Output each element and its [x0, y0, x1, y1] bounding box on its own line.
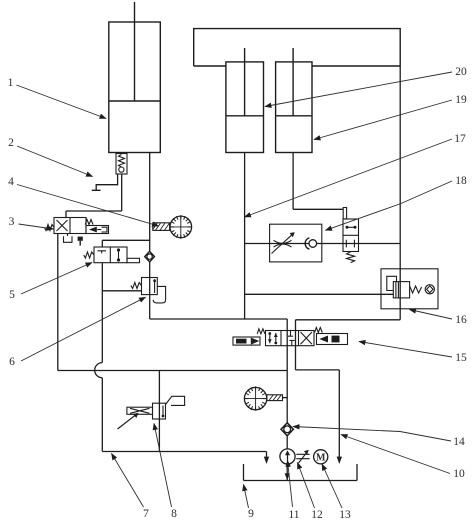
wire valve15 T-port drop to tank [296, 320, 340, 457]
leader line to relief valve 16 [410, 310, 453, 320]
svg-text:2: 2 [8, 137, 14, 149]
cylinder 20 [226, 48, 264, 153]
leader line to drain 2 [17, 146, 93, 177]
svg-text:15: 15 [455, 352, 467, 364]
wire bottom return line C [102, 452, 266, 458]
leader line to pump 11 [288, 461, 293, 508]
cylinder 1 [109, 2, 161, 153]
svg-text:8: 8 [171, 508, 177, 520]
svg-text:6: 6 [9, 356, 15, 368]
leader line to cylinder 20 [265, 72, 452, 107]
svg-text:18: 18 [455, 175, 467, 187]
electric motor 13 [314, 450, 328, 464]
valve 3 [44, 218, 108, 243]
flow control valve 17 [270, 224, 322, 262]
wire valve5 pilot line [102, 240, 149, 247]
motor 4 [153, 215, 192, 239]
leader line to motor 13 [322, 464, 342, 508]
svg-text:19: 19 [455, 94, 467, 106]
svg-text:16: 16 [455, 314, 467, 326]
leader line to valve 3 [19, 224, 54, 229]
leader line to throttle 12 [298, 463, 315, 509]
svg-text:17: 17 [454, 133, 466, 145]
leader line to motor 4 [17, 185, 159, 227]
svg-text:20: 20 [455, 66, 467, 78]
leader line to valve 5 [21, 263, 92, 295]
filter unit 8 [118, 396, 185, 429]
valve 6 [131, 278, 166, 303]
leader line to node 17 [245, 139, 453, 217]
cylinder 19 [276, 48, 312, 153]
check valve 14 [281, 423, 293, 436]
check valve 2 block under cylinder 1 [116, 154, 127, 175]
wire cylinder1 rod-side line down left net [150, 153, 288, 320]
svg-text:5: 5 [9, 289, 15, 301]
svg-text:M: M [316, 453, 326, 464]
svg-text:4: 4 [8, 176, 14, 188]
svg-text:12: 12 [311, 509, 323, 521]
valve 15 [233, 328, 348, 346]
wire right rail [399, 66, 401, 309]
wire pump riser [286, 319, 288, 481]
leader line to valve 15 [359, 342, 452, 358]
wire valve16 bottom stub to valve15 [296, 309, 401, 320]
leader line to cylinder 1 [17, 85, 107, 119]
wire line to valve16 y294 [245, 293, 394, 295]
wire flow line y243 [245, 243, 401, 245]
plug symbol below valve 3 [78, 237, 83, 241]
check valve on rod line [145, 251, 155, 262]
wire filter branch drop [158, 371, 160, 452]
svg-text:9: 9 [248, 508, 254, 520]
tank T9 walls [244, 464, 358, 481]
svg-text:14: 14 [453, 436, 465, 448]
wire continue drop to sump box [101, 378, 103, 452]
node arrow into tank right [337, 457, 342, 464]
valve 5 [84, 247, 140, 263]
valve 18 [343, 208, 359, 263]
wire crossing hop [95, 363, 103, 378]
throttle 12 [296, 452, 309, 464]
leader line to drain line 10 [341, 435, 450, 474]
wire valve3 drop and long horizontal line A [58, 234, 287, 371]
relief valve 16 [381, 269, 438, 309]
hydraulic motor 11 (bottom hatched circle) [244, 386, 282, 410]
leader line to cylinder 19 [314, 100, 452, 140]
wire valve6 input [102, 290, 141, 292]
leader line to tank 9 [244, 485, 249, 509]
node arrow into tank left [264, 457, 269, 464]
svg-text:7: 7 [143, 508, 149, 520]
svg-text:10: 10 [453, 468, 465, 480]
svg-text:11: 11 [288, 509, 299, 521]
pump 11 [280, 449, 295, 464]
svg-text:3: 3 [9, 216, 15, 228]
wire drain from check box to tank symbol [92, 174, 118, 190]
wire cylinder1 left port to node above valve3 [66, 174, 122, 218]
leader line to valve 18 [326, 181, 453, 230]
leader line to box 7 [112, 454, 144, 508]
svg-text:13: 13 [339, 509, 351, 521]
wire cylinder19 drop and top line to rail [293, 153, 343, 210]
svg-text:1: 1 [8, 77, 14, 89]
wire valve5 bottom drop [101, 263, 103, 363]
node arrow riser into tank bottom [285, 473, 290, 480]
wire pump shaft link [283, 397, 288, 399]
wire cylinder20 drop [244, 153, 246, 320]
press platen bar [194, 29, 401, 66]
leader line to filter 8 [154, 424, 172, 508]
leader line to valve 6 [21, 297, 146, 361]
leader line to check valve 14 [293, 427, 451, 442]
